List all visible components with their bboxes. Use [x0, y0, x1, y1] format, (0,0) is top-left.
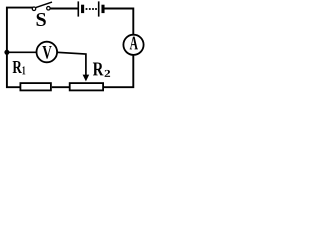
wire R1 to R2	[52, 86, 70, 88]
wiper arrow of R2	[83, 75, 90, 82]
wire switch to battery	[50, 8, 77, 10]
wire ammeter to bottom-right corner	[104, 56, 133, 88]
wire battery to top-right corner and down	[105, 9, 134, 35]
wire junction to voltmeter	[7, 51, 37, 53]
label R1	[13, 61, 22, 73]
rheostat R2 box	[70, 83, 103, 90]
label R2	[93, 63, 104, 76]
wire left rail lower	[7, 52, 20, 87]
voltmeter V	[37, 42, 58, 63]
label S	[37, 13, 46, 26]
battery B1	[78, 1, 103, 16]
wire voltmeter to wiper corner	[57, 52, 86, 75]
wire top-left segment	[7, 8, 32, 52]
resistor R1 box	[20, 83, 51, 90]
ammeter A	[123, 35, 143, 55]
junction dot on left rail	[4, 50, 9, 55]
switch S	[32, 2, 52, 10]
